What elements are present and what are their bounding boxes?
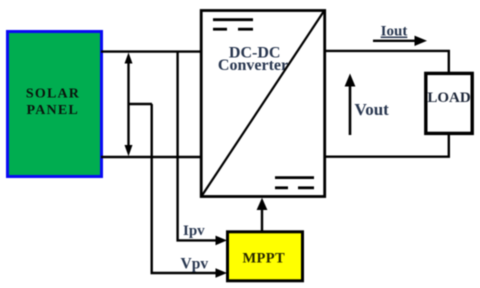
Iout arrow (373, 36, 427, 46)
svg-text:Iout: Iout (381, 24, 408, 40)
svg-text:SOLAR: SOLAR (26, 87, 80, 102)
svg-text:LOAD: LOAD (427, 90, 471, 106)
solar panel box SOLAR PANEL (8, 32, 102, 177)
svg-text:Ipv: Ipv (183, 223, 205, 239)
DC symbol bottom-right of converter (275, 178, 314, 188)
svg-text:Converter: Converter (218, 57, 288, 74)
DC symbol top-left of converter (213, 20, 253, 30)
wire stub from arrow midpoint (129, 103, 153, 105)
svg-text:Vout: Vout (355, 100, 390, 119)
wire converter top to load (325, 51, 449, 75)
svg-text:MPPT: MPPT (242, 251, 285, 267)
wire Vpv vertical drop (152, 104, 216, 273)
Ipv arrow into MPPT (183, 223, 227, 245)
wire panel bottom to converter (101, 156, 201, 158)
double-headed arrow across panel output (125, 53, 133, 157)
LOAD box (426, 73, 472, 133)
wire panel top to converter (101, 50, 201, 52)
wire load bottom to converter (325, 133, 449, 157)
wire MPPT to converter arrow (257, 198, 268, 233)
MPPT box (228, 232, 303, 281)
DC-DC converter box U1 (201, 11, 325, 197)
wire Ipv vertical drop (178, 52, 216, 241)
Vout arrow (345, 74, 390, 136)
Vpv arrow into MPPT (181, 255, 228, 278)
svg-text:Vpv: Vpv (181, 255, 209, 272)
diagonal line of converter (202, 11, 324, 196)
svg-text:PANEL: PANEL (26, 103, 78, 118)
